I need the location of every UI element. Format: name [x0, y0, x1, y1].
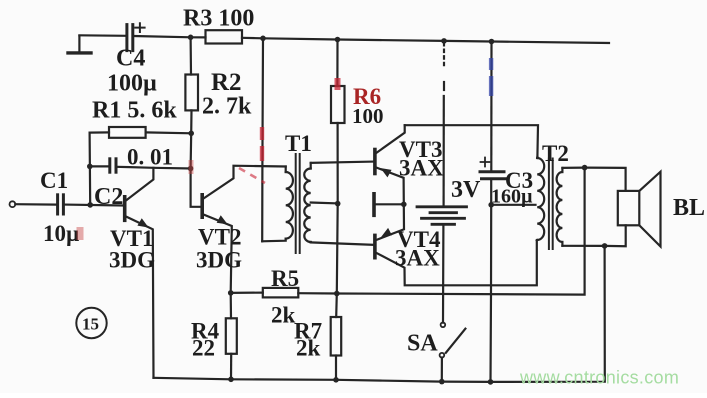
- svg-text:T2: T2: [542, 141, 569, 166]
- transistor VT1: [123, 197, 127, 221]
- wire T2 centre tap: [491, 204, 535, 206]
- transistor VT3: [373, 150, 377, 174]
- svg-text:2k: 2k: [296, 336, 321, 361]
- resistor R6: [331, 86, 345, 123]
- wire: [191, 110, 201, 206]
- svg-text:10µ: 10µ: [43, 221, 79, 246]
- resistor R5: [263, 288, 299, 298]
- capacitor C3: [480, 170, 504, 173]
- switch SA: [441, 323, 446, 328]
- transistor VT4: [373, 235, 377, 257]
- svg-text:3DG: 3DG: [196, 248, 242, 273]
- svg-text:2. 7k: 2. 7k: [202, 94, 252, 120]
- wire: [490, 42, 492, 172]
- wire: [231, 292, 263, 294]
- svg-text:BL: BL: [673, 195, 705, 221]
- transistor VT2: [200, 195, 204, 217]
- wire: [15, 203, 56, 206]
- svg-text:160µ: 160µ: [491, 186, 533, 208]
- svg-text:R5: R5: [271, 266, 299, 291]
- wire: [230, 354, 232, 380]
- svg-text:15: 15: [82, 315, 99, 334]
- svg-text:www.cntronics.com: www.cntronics.com: [519, 368, 679, 388]
- wire: [261, 38, 264, 241]
- wire: [117, 167, 191, 169]
- svg-text:100: 100: [352, 104, 384, 128]
- resistor R4: [226, 318, 237, 354]
- svg-text:3AX: 3AX: [399, 156, 444, 181]
- svg-text:22: 22: [192, 336, 215, 361]
- wire: [88, 133, 91, 205]
- wire: [134, 36, 191, 37]
- svg-text:2k: 2k: [271, 303, 296, 328]
- svg-text:3DG: 3DG: [109, 248, 155, 273]
- battery GB 3V: [417, 205, 467, 208]
- svg-text:R1 5. 6k: R1 5. 6k: [92, 98, 177, 124]
- svg-text:C2: C2: [94, 184, 123, 210]
- svg-text:R2: R2: [211, 69, 242, 96]
- node circled 15: [76, 308, 106, 338]
- node input terminal: [10, 201, 16, 207]
- resistor R3: [206, 30, 243, 43]
- wire top box: [405, 125, 538, 157]
- svg-text:C1: C1: [40, 168, 68, 193]
- wire: [489, 179, 492, 382]
- svg-text:VT2: VT2: [198, 225, 241, 250]
- node middle bar: [372, 194, 376, 216]
- wire: [79, 34, 125, 37]
- wire: [442, 224, 445, 322]
- svg-text:3AX: 3AX: [395, 246, 440, 271]
- wire: [90, 131, 109, 133]
- wire: [242, 38, 609, 43]
- wire feedback: [298, 168, 584, 295]
- wire bottom rail: [154, 246, 605, 382]
- transformer T2 core: [548, 159, 550, 250]
- wire: [335, 356, 337, 380]
- transformer T2 primary: [536, 157, 538, 158]
- wire: [146, 131, 192, 134]
- transformer T1 core: [295, 154, 297, 253]
- wire: [336, 123, 338, 317]
- wire: [336, 40, 338, 87]
- speaker BL: [618, 191, 640, 225]
- svg-text:0. 01: 0. 01: [127, 145, 173, 170]
- resistor R2: [185, 75, 198, 111]
- svg-text:R3 100: R3 100: [183, 6, 254, 32]
- capacitor C2: [108, 159, 111, 172]
- wire: [90, 165, 109, 167]
- svg-text:SA: SA: [407, 331, 438, 357]
- scan artifacts: [77, 58, 494, 240]
- ground: [78, 36, 80, 53]
- svg-text:3V: 3V: [451, 177, 481, 203]
- wire: [230, 293, 233, 318]
- resistor R1: [109, 127, 146, 138]
- transformer T2 secondary: [561, 168, 563, 172]
- transformer T1 secondary: [310, 163, 312, 169]
- svg-text:100µ: 100µ: [107, 71, 157, 97]
- capacitor C1: [56, 195, 59, 214]
- wire: [191, 36, 206, 38]
- capacitor C4: [125, 25, 128, 51]
- wire: [65, 204, 124, 207]
- resistor R7: [331, 317, 342, 356]
- svg-text:T1: T1: [285, 131, 312, 156]
- svg-text:C4: C4: [116, 46, 145, 72]
- wire: [190, 37, 193, 74]
- transformer T1 primary: [285, 167, 287, 173]
- wire (dotted battery link): [443, 43, 445, 66]
